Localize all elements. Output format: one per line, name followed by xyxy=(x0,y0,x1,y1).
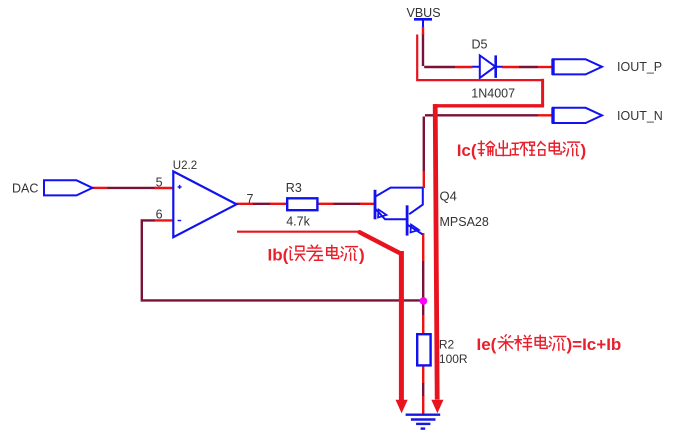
svg-text:MPSA28: MPSA28 xyxy=(440,215,489,229)
svg-text:IOUT_N: IOUT_N xyxy=(617,109,663,123)
svg-text:6: 6 xyxy=(156,208,163,222)
svg-text:5: 5 xyxy=(156,176,163,190)
svg-text:)=Ic+Ib: )=Ic+Ib xyxy=(567,335,622,354)
svg-text:4.7k: 4.7k xyxy=(286,214,310,228)
svg-text:): ) xyxy=(581,141,587,160)
svg-text:U2.2: U2.2 xyxy=(173,160,197,172)
svg-text:100R: 100R xyxy=(439,352,468,366)
svg-text:1N4007: 1N4007 xyxy=(471,87,515,101)
svg-text:DAC: DAC xyxy=(12,181,38,195)
svg-text:IOUT_P: IOUT_P xyxy=(617,60,662,74)
svg-text:D5: D5 xyxy=(472,38,488,52)
svg-text:Ie(: Ie( xyxy=(477,335,497,354)
svg-text:7: 7 xyxy=(247,192,254,206)
svg-text:Q4: Q4 xyxy=(440,189,457,204)
svg-text:Ic(: Ic( xyxy=(457,141,477,160)
svg-text:Ib(: Ib( xyxy=(268,245,289,264)
svg-text:VBUS: VBUS xyxy=(407,6,441,20)
svg-text:R3: R3 xyxy=(286,181,302,195)
svg-text:): ) xyxy=(359,245,365,264)
svg-text:R2: R2 xyxy=(439,337,455,351)
